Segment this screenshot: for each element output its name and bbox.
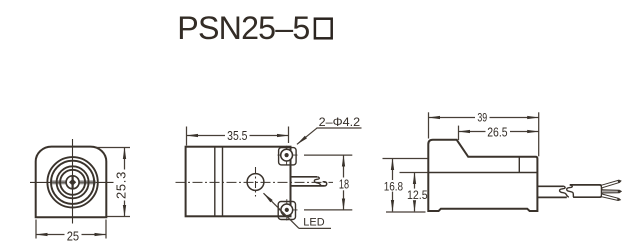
cable break squiggle xyxy=(314,177,321,186)
cable B break squiggle xyxy=(567,185,574,197)
face line 2 xyxy=(222,147,224,217)
gland notch line xyxy=(518,157,520,173)
top hole tick h xyxy=(278,154,298,156)
top hole circle xyxy=(281,149,293,161)
dim 25 line xyxy=(36,234,106,236)
cable stub bottom line xyxy=(291,185,325,187)
cable A top line xyxy=(538,185,564,187)
label 2-phi4.2 leader xyxy=(297,128,317,144)
dim 26.5 extension left xyxy=(458,126,460,140)
thin line over band xyxy=(51,181,95,183)
cable A break squiggle xyxy=(560,186,569,197)
body profile xyxy=(428,140,537,211)
face line 1 xyxy=(214,147,216,217)
dim 25.3 line xyxy=(124,148,126,217)
cable break hook xyxy=(323,182,327,186)
dim 26.5 line xyxy=(459,131,539,133)
bottom hole circle xyxy=(281,204,293,216)
cable B body xyxy=(570,185,602,197)
wire 2 middle xyxy=(602,190,622,193)
coil circle 1 xyxy=(47,157,97,207)
svg-text:16.8: 16.8 xyxy=(384,179,403,193)
dim 25.3 extension bottom xyxy=(107,216,130,218)
sensor body outline xyxy=(36,147,107,218)
dim 39 label xyxy=(475,112,490,124)
LED circle xyxy=(247,174,264,191)
cable stub top line xyxy=(291,176,317,178)
wire 1 tip xyxy=(618,180,621,182)
dim 35.5 line xyxy=(187,135,289,137)
LED vertical centerline xyxy=(255,167,257,197)
svg-text:26.5: 26.5 xyxy=(487,126,507,140)
dim 16.8 line xyxy=(392,159,394,212)
dim 35.5 extension left xyxy=(186,127,188,146)
white core patch xyxy=(66,180,79,185)
coil circle 3 xyxy=(57,166,89,198)
body rectangle xyxy=(186,147,291,217)
svg-text:25: 25 xyxy=(67,229,79,244)
bottom mounting ear xyxy=(278,202,295,220)
coil circle 5 xyxy=(66,176,79,189)
dim 39 extension left xyxy=(428,112,430,138)
dim 35.5 label xyxy=(225,129,250,141)
title suffix square xyxy=(315,19,332,39)
coil circle 2 xyxy=(51,161,94,204)
dim 25 extension right xyxy=(105,220,107,239)
dim 25 extension left xyxy=(35,220,37,239)
svg-text:39: 39 xyxy=(477,111,487,125)
label 2-phi4.2 underline xyxy=(317,127,362,129)
bottom hole tick h xyxy=(278,209,298,211)
wire 2 tip xyxy=(618,190,621,193)
dim 25.3 label xyxy=(114,170,127,201)
centerline vertical xyxy=(72,139,74,224)
dim 26.5 label xyxy=(486,126,511,138)
dim 16.8 label xyxy=(383,180,405,192)
dim 18 line xyxy=(343,155,345,210)
bottom hole tick v xyxy=(286,199,288,220)
svg-text:35.5: 35.5 xyxy=(227,129,247,143)
dim 16.8 extension top xyxy=(383,158,428,160)
dim 35.5 extension right xyxy=(288,127,290,144)
dim 12.5 label xyxy=(406,189,427,201)
bottom hole dot xyxy=(285,208,289,212)
coil circle 4 xyxy=(60,170,85,195)
cable A bottom line xyxy=(538,196,567,198)
wire 3 bottom xyxy=(602,194,621,201)
wire 1 top xyxy=(602,180,621,188)
dim 18 extension bottom xyxy=(304,209,352,211)
dim 18 label xyxy=(337,178,351,191)
top hole dot xyxy=(285,153,289,157)
svg-text:25.3: 25.3 xyxy=(114,171,129,199)
top mounting ear xyxy=(279,148,297,165)
dim 12.5 line xyxy=(414,173,416,212)
dim 18 extension top xyxy=(304,154,352,156)
dim 25.3 extension top xyxy=(96,147,130,149)
dim 16.8 extension bottom xyxy=(386,211,426,213)
svg-text:12.5: 12.5 xyxy=(407,188,428,202)
centerline horizontal xyxy=(30,181,114,183)
parting line xyxy=(428,172,537,174)
core vertical bar xyxy=(72,176,74,189)
svg-text:2–Φ4.2: 2–Φ4.2 xyxy=(319,115,361,129)
svg-text:PSN25–5: PSN25–5 xyxy=(177,10,309,46)
main centerline xyxy=(176,181,334,183)
wire 3 tip xyxy=(617,198,620,201)
svg-text:LED: LED xyxy=(303,217,325,229)
label LED leader xyxy=(264,193,300,228)
dim 39 line xyxy=(429,117,539,119)
dim 39 extension right xyxy=(538,112,540,156)
top hole tick v xyxy=(286,146,288,166)
label LED underline xyxy=(299,227,331,229)
dim 25 label xyxy=(65,229,82,242)
gray coil band xyxy=(51,180,95,184)
dim 12.5 extension top xyxy=(400,172,428,174)
svg-text:18: 18 xyxy=(339,178,349,192)
core diamond xyxy=(69,179,76,186)
